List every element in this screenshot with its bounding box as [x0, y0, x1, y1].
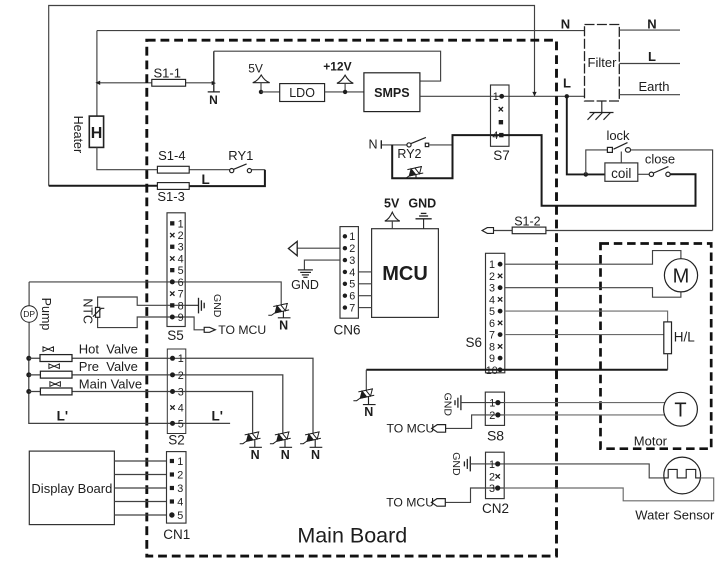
- SECTION: main board border: [147, 40, 557, 556]
- svg-text:5V: 5V: [248, 61, 263, 75]
- svg-text:H: H: [91, 125, 103, 142]
- node arrow at heater branch: [95, 81, 100, 85]
- supply +12V: [337, 75, 353, 83]
- connector S5: [167, 213, 185, 343]
- svg-text:TO MCU: TO MCU: [387, 421, 435, 435]
- valve hot: [40, 355, 72, 362]
- pin 3 of S7: [499, 120, 503, 124]
- pin 5 of S2: [170, 421, 175, 426]
- pin 4 of S5: [170, 256, 174, 260]
- svg-text:5: 5: [489, 306, 495, 318]
- svg-text:Water Sensor: Water Sensor: [635, 508, 715, 523]
- svg-text:1: 1: [178, 353, 184, 365]
- svg-text:lock: lock: [606, 128, 630, 143]
- svg-text:close: close: [645, 151, 675, 166]
- ground chassis below filter: [588, 101, 614, 120]
- svg-text:N: N: [279, 319, 288, 333]
- triac on RY2 loop: [402, 167, 423, 179]
- svg-text:Display Board: Display Board: [31, 481, 112, 496]
- valve main: [40, 388, 72, 395]
- pin 7 of S5: [170, 291, 174, 295]
- triac valve3 with N: [300, 432, 322, 462]
- svg-text:4: 4: [178, 402, 184, 414]
- svg-text:RY1: RY1: [228, 148, 253, 163]
- wire heater bottom to S1-4: [97, 147, 157, 169]
- fuse S1-1: [152, 79, 186, 86]
- SECTION: display cn1: [29, 451, 190, 542]
- motor dashed box: [601, 244, 712, 449]
- wire N top rail to SMPS right: [214, 51, 441, 81]
- wire N out right: [619, 29, 680, 31]
- svg-text:5: 5: [349, 279, 355, 291]
- svg-text:LDO: LDO: [289, 86, 315, 100]
- svg-text:2: 2: [177, 469, 183, 481]
- svg-text:+12V: +12V: [323, 60, 351, 74]
- wire S1-4 row to RY1: [157, 169, 265, 171]
- SECTION: mcu cn6: [288, 196, 438, 337]
- svg-text:5: 5: [178, 418, 184, 430]
- svg-text:S1-3: S1-3: [157, 189, 184, 204]
- svg-text:N: N: [368, 138, 377, 152]
- coil box: [605, 163, 638, 181]
- svg-text:L: L: [563, 76, 571, 91]
- wire LDO to SMPS: [325, 91, 364, 93]
- svg-text:SMPS: SMPS: [374, 86, 409, 100]
- svg-text:5: 5: [178, 265, 184, 277]
- svg-text:3: 3: [349, 255, 355, 267]
- display board box: [29, 451, 114, 524]
- wire S2 pin3 to triac1: [186, 392, 253, 433]
- wire RY1 down to S1-3 row (bold): [189, 170, 265, 186]
- arrow TO MCU CN2: [431, 499, 445, 507]
- svg-text:GND: GND: [441, 393, 453, 417]
- arrow TO MCU S5: [204, 327, 215, 332]
- relay RY2: [407, 137, 429, 147]
- fuse S1-4: [157, 166, 189, 173]
- pin 2 of S2: [170, 372, 175, 377]
- SECTION: s5 ntc pump: [21, 213, 291, 358]
- wire S6 pin10 to H/L bottom (bold): [366, 369, 667, 371]
- connector S5 body: [167, 213, 185, 327]
- wire through S2 pin3 row: [167, 391, 186, 393]
- svg-text:5: 5: [177, 510, 183, 522]
- svg-text:3: 3: [178, 242, 184, 254]
- arrow TO MCU S8: [432, 425, 446, 433]
- pin 4 of CN1: [170, 499, 174, 503]
- svg-text:5V: 5V: [384, 196, 400, 210]
- svg-text:L': L': [57, 409, 68, 424]
- ground comb CN2: [464, 456, 470, 471]
- svg-text:S1-2: S1-2: [514, 214, 540, 228]
- wire through S8 pin1 row: [485, 402, 504, 404]
- svg-text:7: 7: [349, 303, 355, 315]
- SECTION: S7 RY2: [368, 85, 695, 206]
- svg-text:S1-1: S1-1: [154, 65, 181, 80]
- wire RY2 right to vertical: [429, 144, 453, 146]
- svg-text:4: 4: [349, 267, 355, 279]
- filter box: [585, 25, 620, 102]
- svg-text:Hot Valve: Hot Valve: [79, 341, 138, 356]
- wire RY2 loop bold: [392, 135, 490, 178]
- wire through S5 pin9 row: [167, 316, 185, 318]
- node dot main: [26, 389, 31, 394]
- connector S7 body: [491, 85, 510, 146]
- svg-text:Earth: Earth: [638, 79, 669, 94]
- SECTION: s6 motor: [353, 244, 711, 449]
- node junction 12V: [343, 90, 347, 94]
- svg-text:6: 6: [178, 277, 184, 289]
- svg-text:GND: GND: [211, 294, 223, 318]
- wire through S2 pin5 row: [167, 422, 186, 424]
- svg-text:Main Board: Main Board: [297, 524, 407, 548]
- svg-text:TO MCU: TO MCU: [386, 495, 434, 509]
- wire display to CN1 pin5: [114, 514, 166, 516]
- svg-text:6: 6: [489, 318, 495, 330]
- triac S5 with N: [268, 303, 290, 332]
- connector S8: [485, 392, 504, 443]
- svg-text:4: 4: [178, 253, 184, 265]
- svg-text:NTC: NTC: [81, 298, 95, 324]
- svg-text:3: 3: [177, 483, 183, 495]
- wire CN6 pin7 to MCU: [358, 307, 371, 309]
- pin 1 of CN6: [343, 234, 347, 238]
- svg-text:Filter: Filter: [588, 55, 618, 70]
- wire display to CN1 pin2: [114, 474, 166, 476]
- wire CN2 pin3 to TO MCU: [445, 488, 485, 502]
- node coil junction dot: [584, 172, 589, 177]
- regulator LDO: [280, 84, 325, 102]
- svg-text:1: 1: [178, 218, 184, 230]
- node dot hot: [26, 356, 31, 361]
- svg-text:S8: S8: [487, 427, 504, 443]
- svg-text:N: N: [251, 448, 260, 462]
- svg-text:S6: S6: [465, 335, 482, 350]
- connector CN1: [163, 452, 190, 543]
- svg-text:7: 7: [178, 289, 184, 301]
- wire S7 pin4 to close circuit (bold): [491, 135, 696, 206]
- wire S8 pin2 to T: [505, 414, 666, 416]
- pin 1 of S2: [170, 356, 175, 361]
- wire SMPS output to S7 pin1 to filter L: [420, 95, 585, 97]
- supply 5V MCU: [385, 212, 400, 221]
- wire S5 pin9 to TO MCU: [185, 317, 204, 330]
- wire S5 pin6 to triac: [185, 282, 281, 304]
- svg-text:4: 4: [177, 496, 183, 508]
- wire CN2 pin1 to water sensor: [504, 464, 668, 478]
- svg-text:8: 8: [489, 341, 495, 353]
- svg-text:6: 6: [349, 291, 355, 303]
- svg-text:2: 2: [489, 410, 495, 422]
- svg-text:3: 3: [489, 483, 495, 495]
- connector CN6: [333, 227, 360, 338]
- wire S2 pin1 to triac3: [186, 358, 313, 432]
- svg-text:2: 2: [349, 243, 355, 255]
- ground comb S8: [455, 395, 461, 410]
- triac valve2 with N: [270, 432, 292, 462]
- node dot pre: [26, 372, 31, 377]
- wire CN6 pin2 out: [297, 247, 340, 249]
- wire coil stub up: [620, 152, 622, 163]
- pin 3 of CN6: [343, 258, 347, 262]
- svg-text:MCU: MCU: [382, 263, 428, 285]
- SECTION: valves s2: [26, 341, 322, 462]
- pin 6 of CN6: [343, 294, 347, 298]
- svg-text:S7: S7: [493, 148, 510, 163]
- node N terminal RY2: [380, 140, 382, 148]
- pin 3 of S5: [170, 245, 174, 249]
- wire coil right to close: [638, 173, 649, 175]
- node junction 5V: [259, 90, 263, 94]
- wire S6 pin1 to motor M: [505, 251, 681, 265]
- wire comb to S8 pin1: [461, 402, 485, 404]
- wire S8 pin1 to T: [505, 402, 666, 404]
- svg-text:N: N: [561, 16, 570, 31]
- svg-text:2: 2: [489, 471, 495, 483]
- wire RY2 left: [382, 144, 407, 146]
- connector S2: [167, 349, 186, 448]
- SECTION: filter lock coil close: [482, 16, 713, 233]
- svg-text:T: T: [674, 400, 686, 422]
- connector S2 body: [167, 349, 186, 434]
- svg-text:S1-4: S1-4: [158, 148, 185, 163]
- pin 9 of S5: [170, 315, 175, 320]
- connector S8 body: [485, 392, 504, 425]
- thermistor NTC loop: [98, 297, 167, 307]
- wire L bold from outer corner to S1-3: [49, 185, 158, 187]
- wire through CN2 pin3 row: [486, 487, 505, 489]
- svg-text:N: N: [364, 405, 373, 419]
- wire H/L bottom vertical: [667, 354, 669, 370]
- wire water sensor return to CN2 pin3: [504, 478, 714, 501]
- svg-text:7: 7: [489, 330, 495, 342]
- wire S6 pin7 to H/L mid: [505, 334, 664, 336]
- svg-text:L': L': [212, 409, 223, 424]
- wire CN6 pin3 to ground: [304, 260, 340, 270]
- wire pin10 triac drop: [365, 370, 367, 390]
- motor T tacho: [664, 392, 698, 426]
- svg-text:2: 2: [489, 271, 495, 283]
- wire display to CN1 pin1: [114, 460, 166, 462]
- wire through S8 pin2 row: [485, 414, 504, 416]
- pin 2 of CN6: [343, 246, 347, 250]
- motor pump DP: [21, 306, 37, 322]
- pin 5 of CN6: [343, 282, 347, 286]
- motor M: [664, 259, 697, 292]
- svg-text:Heater: Heater: [71, 116, 85, 154]
- SECTION: cn2 water: [386, 452, 715, 523]
- svg-text:H/L: H/L: [674, 329, 696, 344]
- wire pre valve row: [29, 374, 168, 376]
- pin 3 of S2: [170, 389, 175, 394]
- wire display to CN1 pin3: [114, 487, 166, 489]
- svg-text:1: 1: [489, 259, 495, 271]
- wire S1-2 row: [494, 230, 713, 232]
- main board dashed border: [147, 40, 557, 556]
- SECTION: heater: [71, 116, 157, 170]
- water sensor: [664, 457, 701, 494]
- ground GND MCU: [416, 213, 432, 228]
- pin 2 of S5: [170, 233, 174, 237]
- switch lock: [607, 143, 630, 153]
- svg-text:N: N: [281, 448, 290, 462]
- svg-text:9: 9: [178, 312, 184, 324]
- pin 6 of S5: [170, 279, 175, 284]
- svg-text:Main Valve: Main Valve: [79, 377, 142, 392]
- svg-text:CN1: CN1: [163, 527, 190, 542]
- pin 1 of S5: [170, 221, 174, 225]
- pin 3 of CN1: [170, 486, 174, 490]
- wire through S2 pin1 row: [167, 357, 186, 359]
- wire S8 pin2 to TO MCU: [446, 415, 486, 429]
- svg-text:8: 8: [178, 300, 184, 312]
- svg-text:Pre Valve: Pre Valve: [79, 359, 138, 374]
- connector CN2 body: [486, 452, 505, 498]
- svg-text:4: 4: [489, 294, 495, 306]
- thermistor NTC element: [96, 307, 100, 317]
- triac S6 with N: [353, 389, 375, 419]
- wire pump to S5 pin6: [29, 281, 167, 283]
- svg-text:GND: GND: [291, 278, 319, 292]
- svg-text:GND: GND: [450, 452, 462, 476]
- svg-text:9: 9: [489, 353, 495, 365]
- svg-text:1: 1: [349, 231, 355, 243]
- SECTION: psu: [214, 51, 585, 111]
- resistor H/L: [664, 322, 672, 354]
- svg-text:CN6: CN6: [333, 322, 360, 337]
- svg-text:Pump: Pump: [39, 298, 53, 331]
- pin 7 of CN6: [343, 305, 347, 309]
- arrow CN6 pin2: [288, 241, 297, 255]
- wire L drop to coil (bold): [567, 96, 605, 174]
- pin 4 of CN6: [343, 270, 347, 274]
- wire lock branch: [586, 150, 608, 175]
- svg-text:DP: DP: [23, 309, 35, 319]
- connector CN6 body: [340, 227, 358, 319]
- connector CN1 body: [167, 452, 187, 523]
- wire main valve row: [29, 391, 168, 393]
- wire through CN2 pin1 row: [486, 463, 505, 465]
- svg-text:L: L: [202, 172, 210, 187]
- wire pump vertical: [28, 282, 30, 358]
- node L junction dot: [565, 94, 569, 98]
- wire Earth out right: [619, 94, 680, 96]
- valve pre: [40, 371, 72, 378]
- wire through S7 pin1 row: [491, 95, 510, 97]
- wire S2 pin2 to triac2: [186, 375, 283, 433]
- wire CN6 pin4 to MCU: [358, 271, 371, 273]
- wire 5V to LDO: [261, 91, 280, 93]
- supply 5V: [253, 75, 270, 83]
- svg-text:1: 1: [489, 398, 495, 410]
- triac valve1 with N: [240, 432, 262, 462]
- svg-text:Motor: Motor: [634, 433, 668, 448]
- wire S6 pin3 to motor M: [505, 288, 681, 298]
- wire display to CN1 pin4: [114, 501, 166, 503]
- svg-text:M: M: [673, 266, 690, 288]
- wire valves vertical bus: [29, 358, 230, 423]
- connector S6 body: [486, 253, 505, 372]
- pin 1 of CN1: [170, 459, 174, 463]
- svg-text:TO MCU: TO MCU: [218, 323, 266, 337]
- relay RY1: [230, 164, 252, 173]
- wire L out right: [619, 63, 680, 65]
- node arrow at S7 wire top junction: [532, 92, 536, 96]
- arrow S1-2 left: [482, 228, 493, 234]
- svg-text:coil: coil: [611, 166, 631, 181]
- pin 2 of CN1: [170, 472, 174, 476]
- connector S6: [465, 253, 504, 376]
- svg-text:1: 1: [177, 456, 183, 468]
- svg-text:S2: S2: [168, 433, 185, 448]
- svg-text:3: 3: [178, 386, 184, 398]
- node N terminal: [208, 51, 220, 92]
- svg-text:CN2: CN2: [482, 501, 509, 516]
- heater H: [89, 116, 103, 147]
- pin 2 of S7: [499, 107, 503, 111]
- pin 4 of S2: [170, 405, 174, 409]
- svg-text:3: 3: [489, 283, 495, 295]
- wire CN6 pin5 to MCU: [358, 283, 371, 285]
- wire CN6 pin6 to MCU: [358, 295, 371, 297]
- wire comb to CN2 pin1: [470, 463, 485, 465]
- pin 5 of S5: [170, 268, 174, 272]
- wire lock right to S1-2 drop: [631, 150, 713, 231]
- node arrow at N junction: [212, 81, 216, 85]
- switch close: [649, 167, 670, 177]
- wire through S5 pin8 row: [167, 304, 185, 306]
- smps U SMPS: [364, 73, 420, 112]
- connector CN2: [482, 452, 509, 516]
- pin 5 of CN1: [169, 512, 174, 517]
- svg-text:S5: S5: [167, 328, 184, 343]
- connector S7: [491, 85, 510, 163]
- fuse S1-2: [512, 227, 546, 234]
- svg-text:1: 1: [489, 459, 495, 471]
- mcu U MCU: [372, 229, 439, 318]
- wire through S2 pin2 row: [167, 374, 186, 376]
- SECTION: top-left power wires: [49, 6, 585, 186]
- wire N rail to filter: [97, 30, 585, 32]
- svg-text:2: 2: [178, 230, 184, 242]
- wire S6 pin5 to H/L top: [505, 311, 668, 322]
- svg-text:1: 1: [493, 91, 499, 103]
- SECTION: fuses and relays: [49, 51, 265, 204]
- wire S1-1 to heater branch: [97, 82, 152, 84]
- wire outer loop from L corner to top to S7 output junction: [49, 6, 535, 186]
- wire through S5 pin6 row: [167, 281, 185, 283]
- svg-text:N: N: [209, 93, 218, 107]
- pin 8 of S5: [170, 303, 174, 307]
- svg-text:L: L: [648, 49, 656, 64]
- wire S1-1 row: [152, 82, 214, 84]
- ground comb S5 pin8: [185, 298, 204, 314]
- svg-text:N: N: [647, 17, 656, 32]
- SECTION: s8 t: [387, 392, 698, 443]
- ground GND CN6: [298, 270, 313, 277]
- svg-text:RY2: RY2: [397, 147, 421, 161]
- svg-text:GND: GND: [408, 196, 436, 210]
- svg-text:2: 2: [178, 370, 184, 382]
- wire N rail drop to heater top: [96, 31, 98, 117]
- wire hot valve row: [29, 357, 168, 359]
- fuse S1-3: [157, 183, 189, 190]
- svg-text:N: N: [311, 448, 320, 462]
